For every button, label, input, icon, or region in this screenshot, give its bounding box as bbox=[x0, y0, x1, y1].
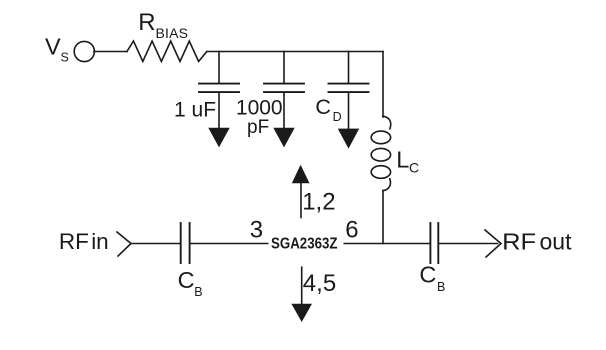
RF in chevron bbox=[117, 232, 131, 256]
svg-text:S: S bbox=[61, 50, 69, 64]
up arrow shaft pins 1,2 bbox=[300, 182, 302, 218]
svg-text:B: B bbox=[194, 285, 202, 299]
wire CB1 to pin 3 bbox=[190, 243, 267, 245]
svg-text:C: C bbox=[315, 95, 331, 119]
svg-text:C: C bbox=[409, 159, 419, 175]
capacitor CB1 plates bbox=[181, 223, 190, 263]
svg-text:SGA2363Z: SGA2363Z bbox=[271, 236, 338, 253]
svg-text:out: out bbox=[540, 229, 573, 255]
svg-text:1000: 1000 bbox=[236, 97, 283, 120]
down arrow shaft pins 4,5 bbox=[301, 267, 303, 304]
svg-text:4,5: 4,5 bbox=[303, 270, 336, 297]
label CD bbox=[315, 95, 341, 124]
capacitor C3 (CD) bbox=[329, 84, 369, 93]
svg-text:3: 3 bbox=[250, 217, 263, 244]
capacitor CB2 plates bbox=[430, 223, 438, 263]
ground symbol C3 bbox=[338, 129, 359, 149]
arrowhead pins 4,5 ground bbox=[291, 304, 312, 322]
wire C2 to ground bbox=[283, 93, 285, 128]
svg-text:D: D bbox=[333, 110, 342, 124]
RF out chevron bbox=[485, 230, 501, 257]
label Vs bbox=[45, 33, 69, 64]
svg-text:1,2: 1,2 bbox=[302, 188, 335, 215]
wire top rail bbox=[207, 51, 383, 53]
label 1000 pF bbox=[236, 97, 283, 139]
svg-text:V: V bbox=[45, 33, 61, 59]
inductor LC bbox=[371, 116, 391, 191]
svg-text:in: in bbox=[91, 229, 109, 254]
label LC bbox=[396, 146, 419, 175]
label CB output bbox=[419, 262, 445, 294]
svg-text:RF: RF bbox=[502, 229, 536, 255]
wire pin 6 to CB2 bbox=[344, 243, 429, 245]
ground symbol C2 bbox=[273, 128, 294, 148]
wire RF in to CB1 bbox=[131, 243, 180, 245]
svg-text:pF: pF bbox=[247, 117, 269, 138]
resistor RBIAS bbox=[127, 41, 207, 62]
arrowhead pins 1,2 bbox=[292, 165, 310, 183]
wire C1 to ground bbox=[218, 93, 220, 128]
svg-text:C: C bbox=[178, 267, 195, 293]
wire inductor to RF line bbox=[382, 191, 384, 244]
svg-text:L: L bbox=[396, 146, 409, 172]
wire branch to C1 bbox=[218, 52, 220, 84]
svg-text:R: R bbox=[138, 9, 155, 36]
wire CB2 to RF out bbox=[439, 243, 498, 245]
svg-text:B: B bbox=[437, 280, 445, 294]
wire C3 to ground bbox=[348, 93, 350, 129]
svg-text:BIAS: BIAS bbox=[156, 25, 189, 41]
wire branch to C2 bbox=[283, 52, 285, 84]
ground symbol C1 bbox=[208, 128, 229, 148]
wire top rail down to inductor bbox=[382, 52, 384, 118]
wire Vs to resistor bbox=[94, 51, 127, 53]
terminal circle Vs bbox=[74, 41, 94, 61]
label RBIAS bbox=[138, 9, 188, 41]
svg-text:6: 6 bbox=[345, 217, 358, 244]
svg-text:RF: RF bbox=[59, 229, 89, 254]
wire branch to C3 bbox=[348, 52, 350, 84]
svg-text:1 uF: 1 uF bbox=[174, 98, 216, 121]
svg-text:C: C bbox=[419, 262, 436, 288]
label CB input bbox=[178, 267, 203, 299]
capacitor C2 (1000 pF) bbox=[264, 84, 304, 93]
capacitor C1 (1 uF) bbox=[199, 84, 239, 93]
